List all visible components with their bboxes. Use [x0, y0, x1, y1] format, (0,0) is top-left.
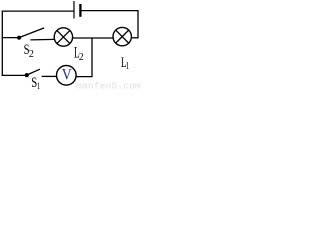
svg-text:V: V — [62, 67, 72, 84]
svg-text:2: 2 — [79, 52, 84, 63]
svg-text:1: 1 — [37, 81, 40, 90]
svg-text:2: 2 — [29, 48, 34, 60]
svg-text:1: 1 — [126, 61, 130, 72]
svg-text:manfen5.com: manfen5.com — [76, 80, 141, 90]
